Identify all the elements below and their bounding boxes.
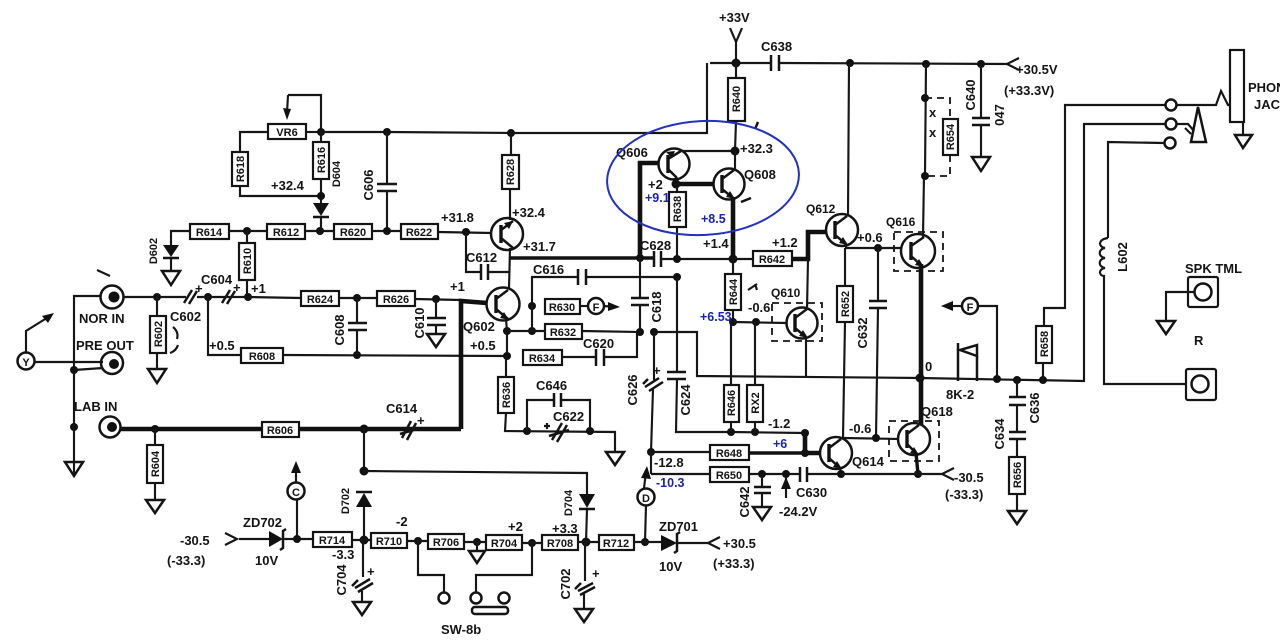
svg-text:+1: +1 [251,281,266,296]
svg-text:SW-8b: SW-8b [441,622,481,637]
ground C640 [972,157,990,171]
svg-text:R606: R606 [267,425,293,437]
node R602 top [153,293,161,301]
svg-text:+32.4: +32.4 [271,178,305,193]
wire Q610 collector up to R642 node [807,259,808,309]
node +33V junction [732,59,741,68]
resistor R602 [156,297,158,316]
svg-text:+9.1: +9.1 [645,191,670,205]
resistor R610 [246,231,248,243]
svg-text:+: + [653,363,661,378]
svg-text:+31.8: +31.8 [441,210,474,225]
wire contact2 to plug tip [1177,124,1194,131]
jack contact 1 [1166,100,1177,111]
ground C702 [575,609,593,622]
svg-text:R608: R608 [249,351,275,363]
resistor R618 [232,152,248,186]
svg-text:-12.8: -12.8 [654,455,684,470]
pen mark apostrophe [755,122,758,129]
node Q604 base / C612 [462,228,470,236]
svg-text:C622: C622 [553,409,584,424]
svg-text:C620: C620 [583,336,614,351]
svg-text:+: + [592,566,600,581]
svg-text:R620: R620 [340,227,366,239]
capacitor C636 [1016,380,1018,397]
svg-text:R: R [1194,333,1204,348]
wire D702 node to D704 [364,471,587,494]
node C642 top [758,470,766,478]
node Q614 emitter [837,470,845,478]
svg-text:C704: C704 [334,564,349,596]
ground phone jack [1242,122,1244,135]
svg-text:Y: Y [22,357,30,369]
svg-text:F: F [593,302,600,314]
wire Q610 emitter down to output feedback [805,337,807,377]
svg-text:Q612: Q612 [806,202,836,216]
dashed box Q616 [894,232,943,271]
svg-text:VR6: VR6 [276,127,297,139]
node C632 top branch [874,244,882,252]
wire contact1 to jack [1177,91,1230,105]
svg-text:8K-2: 8K-2 [946,387,974,402]
transistor Q614 [820,437,852,469]
jack contact 3 [1165,138,1176,149]
flag C circle [288,483,305,500]
svg-text:R604: R604 [150,450,162,477]
switch contact 2 [471,593,482,604]
wire Q612 emitter row to Q616 base [846,244,902,248]
arrow +30.5V [1007,58,1019,70]
capacitor C630 [799,467,802,482]
svg-text:C606: C606 [361,169,376,200]
wire R626 to Q602 base corner [415,299,461,300]
svg-text:10V: 10V [255,553,278,568]
wire Q608 emitter bold down [731,197,736,259]
svg-text:C624: C624 [678,384,693,416]
resistor R712 [599,535,634,550]
node C616 right [673,255,681,263]
svg-text:C: C [292,487,300,499]
svg-text:R636: R636 [501,382,513,408]
wire to R624 [248,297,301,298]
svg-text:RX2: RX2 [750,392,762,413]
svg-text:(+33.3): (+33.3) [713,556,755,571]
node C618/C616 crossing [673,273,681,281]
wire R642 to Q612 base bold [792,232,827,259]
wire R640 to +32.3 node [735,121,736,151]
wire C624 branch vertical [676,277,678,372]
svg-text:+1.4: +1.4 [703,236,729,251]
svg-text:-2: -2 [396,514,408,529]
wire VR6 wiper arrow [287,95,288,113]
wire C630 to Q614 emitter [807,473,841,475]
svg-text:C604: C604 [201,272,233,287]
plug tip triangle [1191,107,1206,142]
svg-text:R704: R704 [491,538,518,550]
svg-text:Q610: Q610 [771,286,801,300]
resistor R616 [313,142,329,179]
resistor R658 [1042,363,1044,380]
node RX2 bottom [751,428,759,436]
svg-text:D602: D602 [148,238,160,264]
wire C circle to ZD702 node [296,499,298,539]
svg-text:L602: L602 [1115,242,1130,272]
svg-text:0: 0 [925,359,932,374]
ground C642 [753,507,771,520]
wire R632 row [507,330,545,332]
svg-text:R630: R630 [549,302,575,314]
svg-text:+2: +2 [508,519,523,534]
wire -1.2 row [731,432,805,433]
capacitor C618 [639,258,641,298]
capacitor C604 (two electrolytics) [184,290,197,304]
wire R620-R622 [372,230,401,232]
svg-text:+1.2: +1.2 [772,235,798,250]
wire top rail y63 [710,62,771,64]
node SW mid [528,539,536,547]
node D702 top [360,425,369,434]
ground R636 row [606,452,624,465]
diode D704 [579,494,595,508]
svg-text:R712: R712 [603,538,629,550]
ground input bus [65,462,83,476]
capacitor C610 [435,299,437,318]
svg-text:R626: R626 [383,294,409,306]
capacitor C640 [977,60,985,68]
wire node to Q610 base [733,322,787,323]
wire Q612 collector up to rail [848,63,849,216]
svg-text:R624: R624 [307,294,334,306]
wire D604 to row [320,217,322,231]
diode D602 [171,231,190,245]
transistor Q608 [714,169,745,200]
svg-text:C612: C612 [466,250,497,265]
node R610 top [243,227,251,235]
potentiometer VR6 [268,124,306,139]
node VR6/R616 junction [317,128,325,136]
svg-text:R610: R610 [242,248,254,274]
svg-text:+8.5: +8.5 [701,212,726,226]
svg-text:JACK: JACK [1254,97,1280,112]
resistor R704 [486,535,522,550]
svg-text:D: D [642,493,650,505]
svg-text:LAB IN: LAB IN [74,399,117,414]
node +32.3 [731,147,740,156]
svg-text:+: + [233,280,241,295]
node C618 rail junction [636,254,644,262]
node LAB bus [70,423,78,431]
resistor R624 [301,291,339,306]
svg-text:C616: C616 [533,262,564,277]
node +1 input [244,293,252,301]
svg-text:(-33.3): (-33.3) [167,553,205,568]
wire R652 bottom to Q614 collector [843,322,845,438]
node C636 top [1013,376,1021,384]
svg-text:C632: C632 [855,317,870,348]
ground C610 [427,334,445,347]
node PRE OUT bus [70,366,78,374]
jack contact 2 [1166,119,1177,130]
svg-text:+6.53: +6.53 [700,310,732,324]
node R604 top [151,425,159,433]
resistor R612 [267,224,305,239]
svg-text:R628: R628 [505,159,517,185]
node R628 top [507,129,515,137]
wire NOR IN left bus [74,296,100,475]
wire Q608 collector to +32.3 [734,151,736,170]
node +32.4 [317,192,325,200]
node R634/R636 row [503,352,511,360]
svg-text:R632: R632 [550,327,576,339]
resistor R630 [545,299,580,314]
node C610 top [432,295,440,303]
svg-text:C610: C610 [412,307,427,338]
svg-text:F: F [967,302,974,314]
node -1.2 right [801,429,809,437]
capacitor C704 electrolytic [362,540,364,577]
resistor R642 [733,258,753,260]
capacitor C612 [466,232,481,272]
svg-text:NOR IN: NOR IN [79,311,125,326]
node R644 bottom [729,318,737,326]
svg-text:+31.7: +31.7 [523,239,556,254]
capacitor C646 loop [527,400,554,431]
capacitor C614 electrolytic [400,421,417,440]
arrow -30.5 [942,468,954,480]
ground R656 [1008,511,1026,524]
node R632 left [528,327,536,335]
svg-text:Q608: Q608 [744,167,776,182]
svg-text:ZD702: ZD702 [243,515,282,530]
wire C604 mid down to R608 row [208,297,241,355]
svg-text:C608: C608 [332,314,347,345]
capacitor C620 [562,356,596,358]
wire Q606 top to +32.3 node [682,150,735,152]
svg-text:+0.6: +0.6 [857,230,883,245]
capacitor C632 [877,248,879,301]
wire VR6 right to rail [306,131,321,133]
inductor L602 [1100,238,1186,384]
resistor R710 [371,533,407,548]
transistor Q606 [659,149,690,180]
svg-text:+30.5V: +30.5V [1016,62,1058,77]
svg-text:C642: C642 [737,486,752,517]
scan speck [97,270,110,276]
svg-text:R648: R648 [716,448,742,460]
svg-text:-3.3: -3.3 [332,547,354,562]
node output takeoff [916,374,925,383]
node C646 loop left [523,427,531,435]
flag F left [580,305,588,307]
svg-text:R614: R614 [196,227,223,239]
resistor R622 [401,224,438,239]
svg-text:R656: R656 [1012,462,1024,488]
transistor Q602 [487,288,520,321]
node R646 bottom [727,428,735,436]
svg-text:R710: R710 [376,536,402,548]
resistor R636 [505,356,507,377]
wire R616 bottom to node [320,179,322,203]
node SW left [414,537,422,545]
arrow stylus to Y [26,316,50,352]
wire NOR IN to C604 [124,296,186,298]
node D flag [641,538,649,546]
wire Q616 collector up [923,175,924,237]
dashed box Q610 [772,303,822,341]
node D604 bottom [316,227,324,235]
speaker terminal R [1186,369,1216,400]
transistor Q616 [901,234,935,268]
svg-text:047: 047 [992,104,1007,126]
svg-text:+33V: +33V [719,10,750,25]
svg-text:R642: R642 [759,254,785,266]
svg-text:(+33.3V): (+33.3V) [1004,83,1054,98]
svg-text:C638: C638 [761,39,792,54]
resistor R632 [545,324,582,339]
svg-text:Q616: Q616 [886,215,916,229]
switch bar [472,607,508,614]
svg-text:R658: R658 [1039,331,1051,357]
node C606 bottom [383,227,391,235]
svg-text:R634: R634 [529,353,556,365]
node ground mid [473,538,481,546]
flag F right [941,301,953,311]
wire R648 row [651,451,710,453]
svg-text:R714: R714 [319,535,346,547]
node R638 top [672,180,681,189]
svg-text:R708: R708 [547,538,573,550]
svg-text:C630: C630 [796,485,827,500]
resistor R706 [428,534,464,549]
svg-text:C626: C626 [625,374,640,405]
dashed resistor R654 branch [922,60,930,68]
svg-text:R706: R706 [433,537,459,549]
svg-text:+32.3: +32.3 [740,141,773,156]
resistor R646 [730,322,732,385]
svg-text:R638: R638 [672,196,684,222]
svg-text:-30.5: -30.5 [954,470,984,485]
svg-text:R612: R612 [273,227,299,239]
wire R612-R620 [305,230,334,232]
svg-text:PRE OUT: PRE OUT [76,338,134,353]
wire R622 to Q604 base [438,232,492,233]
resistor R708 [542,535,578,550]
wire Q616 emitter bold down [919,264,924,425]
wire R628 to Q604 [509,189,511,220]
arrow +30.5 [708,537,720,549]
svg-text:C628: C628 [640,238,671,253]
node R658 bottom [1039,376,1047,384]
node R648 left [647,448,655,456]
resistor R640 [735,63,737,78]
svg-text:C618: C618 [649,291,664,322]
resistor R638 [676,184,678,192]
svg-text:+1: +1 [450,279,465,294]
resistor R652 [844,248,846,286]
svg-text:Q602: Q602 [463,319,495,334]
resistor R634 [523,350,562,365]
ground R706/R704 [469,551,485,563]
node C632 bottom [872,434,880,442]
ground SPK [1157,321,1175,334]
wire Q614 collector row to Q618 base [843,438,899,439]
ground R604 [146,500,164,513]
wire Q606 emitter to Q608 base bold [676,178,714,184]
wire contact3 to L602 [1108,142,1164,238]
svg-text:-30.5: -30.5 [180,533,210,548]
svg-text:x: x [929,105,937,120]
wire Q602 base bold [461,301,487,429]
svg-text:C614: C614 [386,401,418,416]
pen dashes near R602 [170,327,178,353]
resistor R620 [334,224,372,239]
svg-text:C640: C640 [963,79,978,110]
node D702/C704 [360,536,369,545]
resistor R644 [732,259,734,274]
wire C616/R630 stem down to R632 row [531,306,533,331]
meter circle Y [18,353,35,370]
svg-text:D604: D604 [331,160,343,187]
pen mark near Q608 [741,198,751,202]
svg-text:+0.5: +0.5 [470,338,496,353]
capacitor C642 [761,474,763,487]
wire R614-R612 [229,230,267,232]
wire R648 to Q614 base bold [749,451,805,454]
wire R636 bottom row to ground [505,413,615,452]
capacitor C702 electrolytic [584,542,586,581]
svg-text:D704: D704 [563,489,575,516]
wire R616 stem [320,132,322,142]
wire Q604 emitter down to Q602 collector [509,248,510,289]
wire VR6 left to R618 [240,132,268,152]
svg-text:-0.6: -0.6 [748,300,770,315]
svg-text:Q614: Q614 [852,454,885,469]
svg-text:+: + [367,564,375,579]
wire R624-R626 [339,297,377,299]
wire R608 row to Q602 emitter node [283,355,507,356]
resistor R606 [262,422,299,437]
svg-text:R644: R644 [728,278,740,305]
node -24.2V [782,470,790,478]
node RX2 top [752,318,760,326]
resistor R614 [190,224,229,239]
svg-text:C636: C636 [1027,392,1042,423]
capacitor C622 electrolytic [549,423,569,442]
wire Q614 emitter to row [840,467,841,474]
capacitor C626 electrolytic [653,332,655,380]
svg-text:R622: R622 [406,227,432,239]
node Q602 emitter [503,327,511,335]
wire R618 bottom [240,186,321,196]
svg-text:R646: R646 [726,390,738,416]
wire rail y132 [321,63,707,133]
svg-text:x: x [929,125,937,140]
transistor Q612 [826,214,858,246]
resistor R648 [710,445,749,460]
svg-text:C702: C702 [558,568,573,599]
svg-text:R616: R616 [316,147,328,173]
ground C704 [353,602,371,615]
node C flag [293,535,301,543]
wire feedback zigzag to output [654,332,920,378]
switch SW-8b wires [418,541,444,592]
transistor Q618 [898,423,930,455]
diode D604 [313,203,329,216]
node C608 bottom [353,351,361,359]
svg-text:-10.3: -10.3 [656,476,685,490]
wire output row [920,124,1166,381]
svg-text:R602: R602 [153,321,165,347]
